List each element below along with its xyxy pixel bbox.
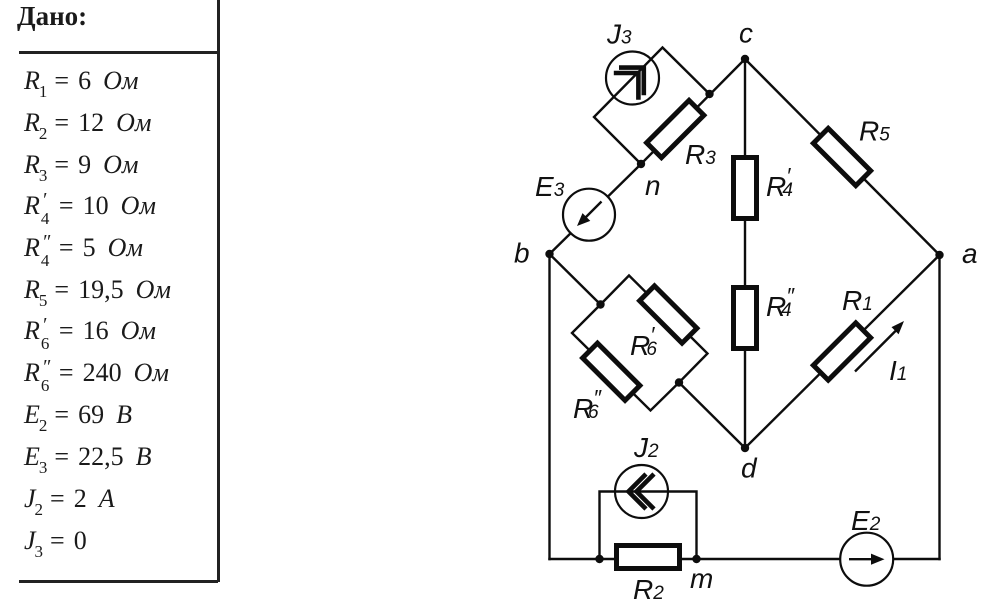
svg-text:J2: J2 (633, 432, 659, 463)
wire n-c (through R3) (641, 59, 745, 164)
EMF source E3 (563, 189, 615, 241)
bottom rail left segment (through R2) (548, 558, 696, 561)
value J2 (24, 484, 115, 514)
resistor R3 (647, 100, 704, 157)
value E3 (24, 442, 151, 472)
current arrow I1 (855, 321, 904, 372)
panel divider line under title (19, 51, 218, 54)
svg-text:b: b (514, 238, 530, 269)
svg-text:d: d (741, 453, 758, 484)
wire R6 right junction to d (679, 383, 745, 449)
value E2 (24, 400, 132, 430)
svg-text:R′6: R′6 (630, 323, 657, 362)
resistor R4'' (734, 288, 757, 349)
wire c-d vertical (through R4' and R4'') (744, 59, 746, 448)
wire b down to bottom rail (548, 254, 550, 560)
resistor R6' (640, 286, 697, 343)
svg-text:c: c (739, 18, 753, 49)
svg-text:J3: J3 (606, 19, 632, 50)
svg-text:I1: I1 (889, 355, 907, 386)
wire d-a (through R1) (745, 255, 940, 448)
value R1 (24, 66, 138, 96)
svg-text:a: a (962, 238, 978, 269)
wire a down to bottom rail (938, 255, 940, 560)
panel bottom rule (19, 580, 218, 583)
node c (741, 55, 749, 63)
current source J2 (615, 465, 668, 518)
node d (741, 444, 749, 452)
value R5 (24, 275, 171, 305)
resistor R2 (617, 546, 680, 569)
value R2 (24, 108, 151, 138)
node R6 right junction (675, 378, 683, 386)
bottom rail right segment (through E2) (697, 558, 941, 561)
panel vertical rule (217, 0, 220, 582)
resistor R6'' (583, 343, 640, 400)
value R4' (24, 191, 156, 221)
svg-text:E2: E2 (851, 505, 881, 536)
current source J3 (606, 52, 659, 105)
value R4'' (24, 233, 143, 263)
svg-text:R2: R2 (633, 574, 664, 600)
node n (637, 160, 645, 168)
wire R6 upper branch (through R6') (601, 276, 708, 383)
value J3 (24, 526, 87, 556)
wire R6 lower branch (through R6'') (572, 305, 679, 411)
wire J3 bypass branch (594, 48, 710, 165)
svg-text:R3: R3 (685, 139, 716, 170)
svg-text:R1: R1 (842, 285, 873, 316)
svg-text:R″6: R″6 (573, 386, 602, 425)
svg-text:m: m (690, 563, 713, 594)
EMF source E2 (840, 533, 893, 586)
value R3 (24, 150, 138, 180)
value R6' (24, 316, 156, 346)
node m (692, 555, 700, 563)
resistor R5 (813, 128, 870, 185)
svg-text:E3: E3 (535, 171, 565, 202)
node b (545, 250, 553, 258)
node R2 left junction (595, 555, 603, 563)
svg-text:n: n (645, 170, 661, 201)
node a (935, 251, 943, 259)
resistor R4' (734, 158, 757, 219)
wire b to R6 left junction (550, 254, 601, 305)
wire c-a (through R5) (745, 59, 940, 255)
wire b-n (through E3) (550, 164, 642, 254)
node R6 left junction (596, 300, 604, 308)
value R6'' (24, 358, 169, 388)
wire J2 bypass loop (600, 492, 697, 560)
given-data panel title (17, 1, 87, 32)
resistor R1 (813, 323, 870, 380)
node j junction of R3 and J3 branch (705, 90, 713, 98)
svg-text:R5: R5 (859, 116, 890, 147)
svg-text:R′4: R′4 (766, 164, 793, 203)
svg-text:R″4: R″4 (766, 284, 795, 323)
